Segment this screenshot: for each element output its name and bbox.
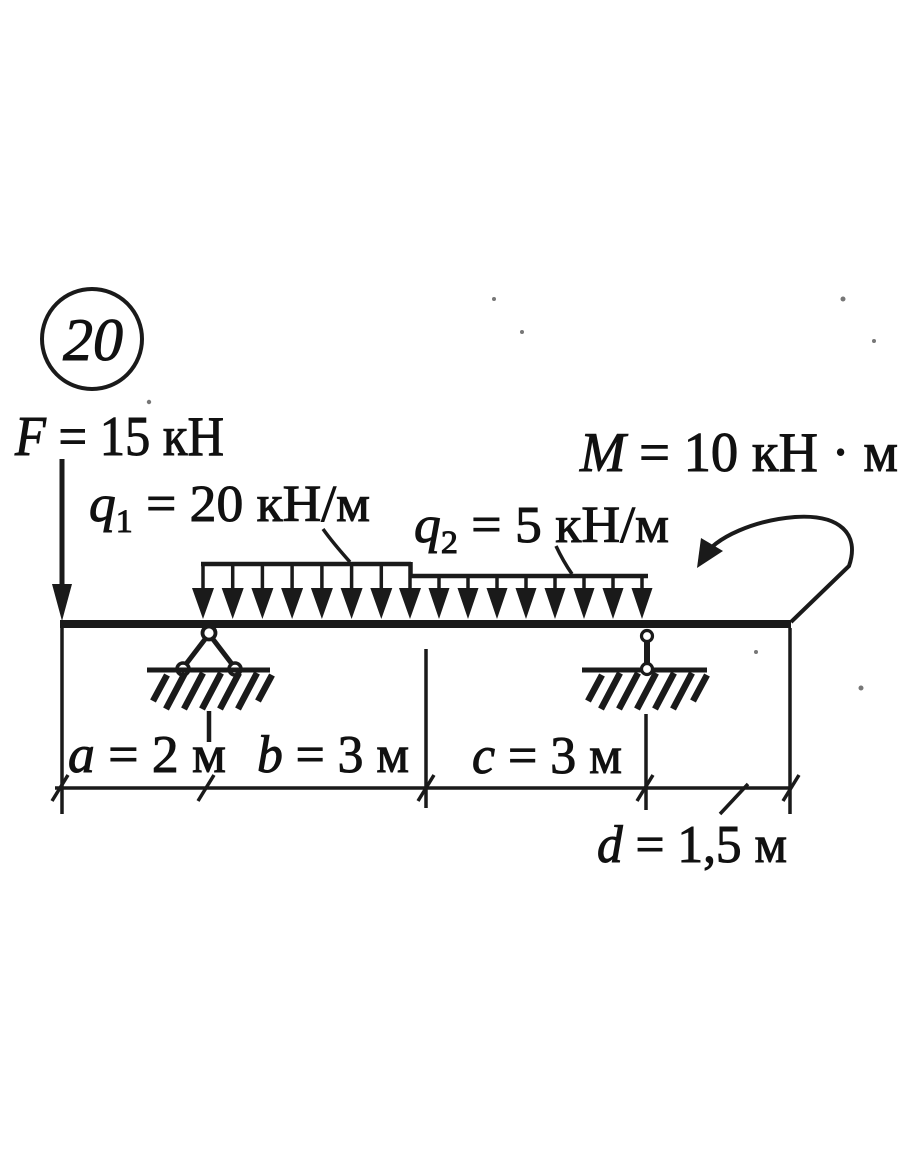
extension line roller (c/d boundary) — [644, 714, 648, 810]
problem number badge circle 20 — [42, 289, 142, 389]
distributed load q1 top line — [201, 562, 411, 567]
dimension tick at b/c boundary — [418, 775, 434, 801]
q1 leader line — [323, 529, 350, 562]
svg-text:M = 10 кН · м: M = 10 кН · м — [579, 422, 898, 484]
force F arrow — [52, 459, 72, 621]
dimension line — [55, 786, 792, 790]
pin support legs — [183, 634, 235, 668]
q2 leader line — [556, 546, 572, 574]
pin support right foot circle — [229, 663, 241, 675]
distributed load q1 arrows — [192, 564, 421, 619]
d label leader slash — [720, 784, 748, 814]
extension line middle (b/c boundary) — [424, 649, 428, 808]
pin support ground line — [147, 668, 270, 673]
roller support ground hatching — [588, 673, 707, 709]
svg-text:c = 3 м: c = 3 м — [472, 727, 622, 785]
dimension tick at a/b boundary — [198, 775, 214, 801]
distributed load q2 arrows — [429, 576, 653, 619]
moment M curved arrow — [697, 517, 852, 622]
svg-text:b = 3 м: b = 3 м — [257, 726, 409, 784]
beam — [60, 620, 791, 628]
svg-text:F = 15 кН: F = 15 кН — [14, 406, 224, 468]
q1/q2 step connector — [409, 562, 413, 578]
roller support ground line — [582, 668, 707, 673]
scan noise specks — [147, 297, 876, 691]
svg-text:20: 20 — [63, 307, 123, 373]
dimension tick at c/d boundary — [637, 775, 653, 801]
pin support stub extension — [207, 711, 212, 742]
distributed load q2 top line — [411, 574, 648, 579]
extension line left end — [60, 628, 64, 814]
pin support apex hinge circle — [203, 627, 216, 640]
roller support upper hinge circle — [642, 631, 653, 642]
extension line right end — [788, 628, 792, 814]
pin support left foot circle — [177, 663, 189, 675]
svg-text:a = 2 м: a = 2 м — [68, 726, 226, 784]
dimension tick at right end — [783, 775, 799, 801]
roller support link — [644, 640, 650, 664]
pin support ground hatching — [153, 673, 272, 709]
svg-text:d = 1,5 м: d = 1,5 м — [597, 816, 787, 874]
roller support lower circle — [642, 664, 653, 675]
dimension tick at left end — [52, 775, 68, 801]
